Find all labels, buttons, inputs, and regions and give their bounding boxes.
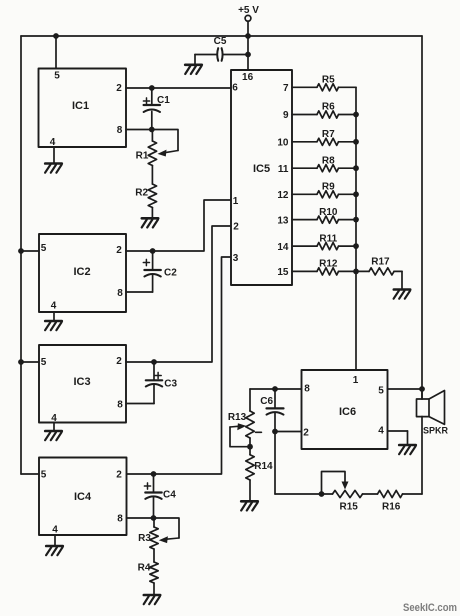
pin 15 label IC5 (277, 267, 289, 278)
wire IC5 pin 10 stub (292, 141, 317, 143)
junction C3 top (151, 359, 157, 365)
svg-text:12: 12 (277, 190, 289, 201)
ground for R4 (144, 595, 161, 604)
svg-text:10: 10 (277, 138, 289, 149)
svg-text:C2: C2 (164, 268, 177, 279)
wire bus to R17 (356, 270, 369, 272)
ground for IC2 pin4 (45, 321, 62, 330)
pin 5 label IC1 (54, 71, 60, 82)
pin 2 label IC4 (116, 470, 122, 481)
svg-text:8: 8 (117, 125, 123, 136)
wire R15 lead (322, 493, 333, 495)
resistor R16 (378, 490, 403, 512)
svg-text:11: 11 (278, 164, 289, 175)
svg-text:5: 5 (41, 470, 47, 481)
pin 4 label IC4 (52, 525, 58, 536)
pin 2 label IC1 (116, 83, 122, 94)
wire IC6 pin5 to speaker (388, 388, 423, 390)
capacitor C4 (144, 483, 176, 501)
junction IC1 pin8 node (149, 127, 155, 133)
svg-text:1: 1 (233, 196, 239, 207)
wire IC5 pin 14 stub (292, 245, 317, 247)
wire IC1 pin4 to ground (53, 147, 55, 163)
resistor R17 (369, 257, 394, 275)
wire +5V drop to IC5 pin 16 (247, 21, 249, 70)
wire IC2 pin4 to ground (53, 312, 55, 320)
wire right rail upper (421, 36, 423, 399)
svg-text:2: 2 (233, 222, 239, 233)
svg-text:IC5: IC5 (253, 163, 270, 175)
wire R1 to R2 (151, 166, 153, 185)
wire IC5 pin 11 stub (292, 167, 317, 169)
junction R15 left node (319, 491, 325, 497)
capacitor C1 (143, 95, 170, 112)
ground for R2 (142, 218, 159, 227)
wire C3 leads (153, 362, 155, 404)
junction IC1 pin5 on top rail (53, 33, 59, 39)
wire output bus to IC6 pin 1 (355, 87, 357, 370)
svg-text:5: 5 (54, 71, 60, 82)
svg-text:R12: R12 (319, 259, 338, 270)
pin 3 label IC5 (233, 253, 239, 264)
pin 2 label IC2 (116, 245, 122, 256)
resistor R10 (317, 207, 339, 223)
svg-text:4: 4 (378, 426, 384, 437)
svg-text:IC2: IC2 (73, 266, 90, 278)
ground for IC4 pin4 (46, 546, 63, 555)
arrow R15 wiper (342, 482, 349, 490)
wire R10 to bus (339, 219, 357, 221)
resistor R15 (pot) (333, 490, 363, 512)
pin 14 label IC5 (277, 242, 289, 253)
svg-text:R10: R10 (319, 207, 338, 218)
op IC1 (39, 69, 127, 148)
svg-text:R11: R11 (319, 233, 337, 244)
capacitor C6 (260, 396, 283, 415)
wire IC2 pin2 to IC5 pin1 (126, 200, 231, 251)
svg-text:8: 8 (117, 514, 123, 525)
svg-text:1: 1 (353, 375, 359, 386)
wire R7 to bus (339, 141, 357, 143)
svg-text:R14: R14 (254, 461, 273, 472)
op IC2 (39, 234, 126, 312)
pin 16 label IC5 (242, 72, 254, 83)
wire IC5 pin 9 stub (292, 114, 317, 116)
node +5 V terminal (238, 5, 259, 21)
resistor R12 (317, 259, 339, 275)
resistor R8 (317, 155, 339, 171)
junction bus at y=114.5 (353, 112, 359, 118)
pin 1 label IC5 (233, 196, 239, 207)
junction C6 top (272, 386, 278, 392)
wire IC3 pin5 from left rail (21, 361, 39, 363)
svg-text:16: 16 (242, 72, 254, 83)
svg-text:C3: C3 (164, 379, 177, 390)
pin 6 label IC5 (232, 83, 238, 94)
svg-text:R6: R6 (322, 102, 335, 113)
wire left rail (20, 36, 22, 474)
junction IC3 pin5 on left rail (18, 359, 24, 365)
wire R17 to ground (394, 271, 402, 288)
svg-text:6: 6 (232, 83, 238, 94)
svg-text:C1: C1 (157, 95, 170, 106)
amplifier IC6 (302, 370, 388, 449)
junction bus at y=219.6 (353, 217, 359, 223)
wire R3 to R4 (153, 549, 155, 562)
wire speaker stem (421, 389, 423, 399)
watermark SeekIC.com (403, 602, 457, 614)
resistor R11 (317, 233, 339, 249)
resistor R9 (317, 182, 339, 198)
svg-text:R8: R8 (322, 155, 335, 166)
svg-text:14: 14 (277, 242, 289, 253)
svg-text:R9: R9 (322, 182, 335, 193)
wire R4 to ground (153, 583, 155, 594)
resistor R13 (pot) (228, 411, 254, 438)
op IC3 (39, 345, 126, 423)
ground for IC3 pin4 (45, 431, 62, 440)
pin 11 label IC5 (278, 164, 289, 175)
wire IC2 pin5 from left rail (21, 250, 39, 252)
svg-text:2: 2 (116, 470, 122, 481)
svg-text:2: 2 (116, 245, 122, 256)
pin 2 label IC5 (233, 222, 239, 233)
pin 2 label IC6 (303, 428, 309, 439)
wire IC4 pin4 to ground (54, 535, 56, 545)
junction IC2 pin5 on left rail (18, 248, 24, 254)
svg-text:4: 4 (51, 301, 57, 312)
wire IC5 pin 15 stub (292, 270, 317, 272)
svg-text:SPKR: SPKR (423, 426, 449, 436)
capacitor C2 (143, 259, 177, 278)
speaker SPKR (417, 391, 449, 436)
svg-text:8: 8 (117, 400, 123, 411)
wire R13 node to R14 (249, 447, 251, 455)
wire IC5 pin 7 stub (292, 86, 317, 88)
pin 8 label IC2 (117, 288, 123, 299)
junction R13 wiper node (247, 444, 253, 450)
svg-text:IC6: IC6 (339, 406, 356, 418)
wire R13 wiper loop (230, 427, 250, 447)
junction +5V at C5 branch (245, 52, 251, 58)
wire C1 leads (151, 88, 153, 130)
junction bus at y=246.1 (353, 243, 359, 249)
wire C1 node to R1 (151, 130, 153, 142)
resistor R6 (317, 102, 339, 118)
wire IC3 pin2 to IC5 pin2 (126, 226, 231, 362)
svg-text:5: 5 (41, 357, 47, 368)
svg-text:R13: R13 (228, 412, 247, 423)
svg-text:R17: R17 (371, 257, 390, 268)
resistor R4 (138, 562, 159, 583)
wire R12 to bus (339, 270, 357, 272)
capacitor C3 (146, 372, 178, 389)
svg-text:3: 3 (233, 253, 239, 264)
svg-text:IC4: IC4 (74, 491, 92, 503)
wire top supply rail (21, 35, 422, 37)
junction bus at y=141.8 (353, 139, 359, 145)
svg-text:+5 V: +5 V (238, 5, 259, 16)
pin 5 label IC3 (41, 357, 47, 368)
svg-text:C6: C6 (260, 396, 273, 407)
pin 9 label IC5 (283, 110, 289, 121)
wire R13 bottom (249, 438, 251, 447)
ground for R17 (394, 290, 411, 299)
wire IC2 pin8 (126, 291, 153, 293)
wire R2 to ground (151, 208, 153, 218)
wire IC6 pin4 to ground (388, 431, 408, 444)
wire R3 wiper loop (154, 518, 180, 538)
counter IC5 (231, 70, 292, 285)
resistor R2 (135, 184, 156, 208)
svg-text:R4: R4 (138, 563, 151, 574)
wire IC5 pin 12 stub (292, 193, 317, 195)
resistor R14 (246, 455, 273, 480)
svg-text:R7: R7 (322, 129, 335, 140)
junction IC4 pin8 node (151, 515, 157, 521)
pin 4 label IC1 (50, 137, 56, 148)
svg-text:IC1: IC1 (72, 100, 89, 112)
wire R11 to bus (339, 245, 357, 247)
wire IC4 pin8 (127, 517, 154, 519)
svg-text:SeekIC.com: SeekIC.com (403, 602, 457, 614)
pin 5 label IC2 (41, 243, 47, 254)
wire R14 to ground (249, 480, 251, 500)
resistor R1 (pot) (136, 141, 157, 166)
capacitor C5 (214, 36, 227, 61)
arrow R1 wiper (158, 150, 179, 157)
svg-text:R15: R15 (340, 502, 359, 513)
wire IC1 pin2 to IC5 pin6 (126, 87, 231, 89)
svg-text:15: 15 (277, 267, 289, 278)
resistor R3 (pot) (138, 527, 158, 549)
wire R16 to right rail (403, 493, 423, 495)
pin 13 label IC5 (277, 215, 289, 226)
resistor R7 (317, 129, 339, 145)
wire IC1 pin5 to top rail (55, 36, 57, 69)
wire R9 to bus (339, 193, 357, 195)
op IC4 (39, 458, 127, 536)
ground for C5 (185, 65, 202, 74)
ground for R14 (241, 501, 258, 510)
wire right rail lower (speaker to R16) (421, 417, 423, 495)
wire IC3 pin4 to ground (53, 423, 55, 431)
svg-text:R5: R5 (322, 75, 335, 86)
svg-text:13: 13 (277, 215, 289, 226)
wire IC6 pin8 to R13 (250, 389, 302, 411)
junction bus at y=168.2 (353, 165, 359, 171)
wire C4 leads (153, 474, 155, 518)
wire R1 wiper loop (152, 130, 178, 151)
svg-text:IC3: IC3 (73, 376, 90, 388)
arrow R13 wiper (230, 423, 246, 430)
svg-text:R16: R16 (382, 502, 401, 513)
wire C6 leads (274, 389, 276, 432)
junction bus at y=194.3 (353, 191, 359, 197)
wire IC4 pin5 from left rail (21, 473, 39, 475)
pin 7 label IC5 (283, 83, 289, 94)
resistor R5 (317, 75, 339, 91)
svg-text:2: 2 (116, 356, 122, 367)
wire IC4 pin2 to IC5 pin3 (127, 257, 232, 474)
pin 10 label IC5 (277, 138, 289, 149)
junction C1 top (149, 85, 155, 91)
wire IC3 pin8 (126, 403, 154, 405)
ground for IC6 pin4 (399, 445, 416, 454)
pin 4 label IC6 (378, 426, 384, 437)
junction +5V at top rail (245, 33, 251, 39)
pin 12 label IC5 (277, 190, 289, 201)
pin 5 label IC4 (41, 470, 47, 481)
wire IC1 pin8 (126, 129, 152, 131)
polarity minus C6 (256, 431, 262, 433)
pin 8 label IC6 (304, 384, 310, 395)
svg-text:5: 5 (378, 386, 384, 397)
pin 8 label IC3 (117, 400, 123, 411)
svg-text:C5: C5 (214, 36, 227, 47)
svg-text:5: 5 (41, 243, 47, 254)
pin 4 label IC2 (51, 301, 57, 312)
pin 2 label IC3 (116, 356, 122, 367)
pin 8 label IC1 (117, 125, 123, 136)
junction speaker node (419, 386, 425, 392)
svg-text:R2: R2 (135, 188, 148, 199)
wire IC6 pin2 node (275, 432, 322, 495)
junction bus at y=271.4 (353, 269, 359, 275)
svg-text:4: 4 (52, 525, 58, 536)
svg-text:7: 7 (283, 83, 289, 94)
svg-text:R3: R3 (138, 533, 151, 544)
svg-text:8: 8 (117, 288, 123, 299)
svg-text:R1: R1 (136, 151, 149, 162)
wire R6 to bus (339, 114, 357, 116)
pin 5 label IC6 (378, 386, 384, 397)
ground for IC1 pin4 (45, 164, 62, 173)
svg-text:C4: C4 (163, 490, 176, 501)
junction C6 bottom (272, 429, 278, 435)
svg-text:4: 4 (50, 137, 56, 148)
wire C2 leads (152, 251, 154, 292)
wire R8 to bus (339, 167, 357, 169)
wire C5 branch (195, 55, 248, 64)
pin 1 label IC6 (353, 375, 359, 386)
wire IC5 pin 13 stub (292, 219, 317, 221)
arrow R3 wiper (159, 536, 179, 543)
wire R15 to R16 (363, 493, 378, 495)
pin 4 label IC3 (51, 413, 57, 424)
wire R5 to bus (339, 86, 357, 88)
junction C4 top (151, 471, 157, 477)
junction C2 top (150, 248, 156, 254)
svg-text:2: 2 (303, 428, 309, 439)
pin 8 label IC4 (117, 514, 123, 525)
wire R15 wiper loop (322, 472, 346, 495)
svg-text:8: 8 (304, 384, 310, 395)
svg-text:9: 9 (283, 110, 289, 121)
wire C4 node to R3 (153, 518, 155, 527)
svg-text:2: 2 (116, 83, 122, 94)
